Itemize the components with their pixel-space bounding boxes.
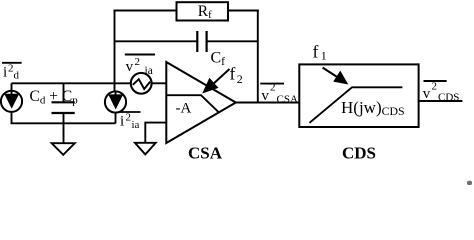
wire feedback left vertical (114, 10, 116, 93)
svg-text:2: 2 (126, 112, 132, 124)
wire bottom rail (11, 122, 116, 124)
ground at amp input (135, 143, 156, 155)
svg-text:CSA: CSA (188, 144, 223, 163)
label CDS (342, 144, 376, 163)
scan speck bottom right (467, 181, 472, 186)
svg-text:2: 2 (135, 56, 141, 68)
svg-text:CDS: CDS (438, 92, 459, 104)
svg-text:i: i (3, 65, 7, 81)
svg-text:2: 2 (237, 72, 243, 86)
wire top feedback right segment (228, 10, 259, 12)
current source i2ia (105, 91, 126, 123)
wire CSA output (235, 102, 300, 104)
svg-text:2: 2 (432, 81, 438, 93)
op-amp CSA triangle (166, 62, 236, 143)
label v2ia noise voltage (125, 55, 155, 78)
label v2CDS node (423, 81, 460, 104)
svg-text:CDS: CDS (342, 144, 376, 163)
svg-text:ia: ia (132, 119, 140, 131)
label f2 (230, 64, 243, 87)
wire feedback right vertical (257, 10, 259, 103)
capacitor Cd+Cp (52, 83, 75, 123)
wire top feedback left segment (114, 10, 177, 12)
capacitor Cf (197, 31, 225, 68)
svg-text:Cd + Cp: Cd + Cp (30, 88, 79, 107)
wire Cf branch right (207, 40, 258, 42)
svg-text:v: v (261, 88, 269, 104)
wire Cf branch left (115, 40, 198, 42)
label -A (176, 101, 192, 117)
resistor Rf (177, 2, 229, 21)
current source i2d (1, 83, 22, 123)
label i2d noise current (2, 63, 22, 82)
wire CDS output (419, 100, 463, 102)
svg-text:CSA: CSA (277, 94, 298, 106)
svg-text:2: 2 (270, 82, 276, 94)
op-amp internal gain line (167, 95, 219, 112)
svg-text:v: v (126, 59, 134, 75)
svg-text:-A: -A (176, 101, 192, 117)
label f1 (313, 42, 327, 63)
arrow f1 (323, 68, 349, 85)
wire amp lower input to ground (145, 123, 166, 143)
label Cd + Cp (30, 88, 79, 107)
label H(jw)CDS (341, 98, 405, 118)
label CSA (188, 144, 223, 163)
voltage source v2ia (131, 73, 152, 94)
CDS block box (299, 64, 418, 127)
label v2CSA node (260, 82, 298, 106)
svg-text:i: i (120, 114, 124, 130)
svg-text:v: v (423, 86, 431, 102)
svg-text:f: f (313, 42, 319, 62)
arrow f2 (202, 69, 229, 94)
CDS transfer function polyline (310, 87, 403, 123)
label i2ia noise current (119, 112, 140, 132)
node input rail wire (12, 82, 132, 84)
svg-text:d: d (14, 70, 20, 82)
svg-text:1: 1 (321, 49, 327, 63)
wire rail to amp input (151, 82, 167, 84)
svg-text:f: f (230, 64, 236, 84)
ground below Cd+Cp (52, 123, 75, 155)
